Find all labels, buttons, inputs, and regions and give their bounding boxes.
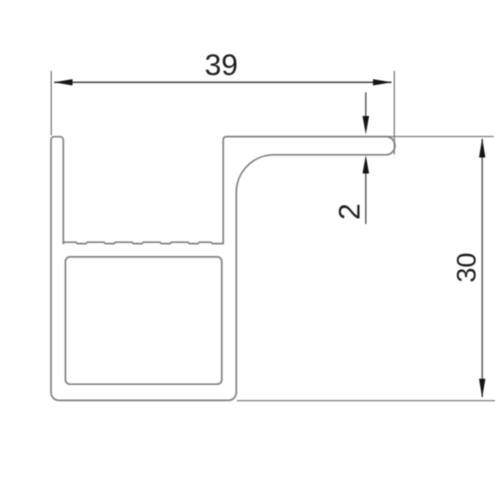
dim 2: lower line with up arrow xyxy=(365,159,367,224)
profile inner cavity xyxy=(65,257,221,384)
dim 30: top arrow xyxy=(479,138,485,157)
dim 30: bottom extension line xyxy=(237,400,495,402)
dim 30: bottom arrow xyxy=(479,379,485,398)
svg-text:30: 30 xyxy=(451,253,481,283)
dim 30: dimension line xyxy=(481,139,483,397)
dim 39: dimension line xyxy=(54,81,392,83)
svg-text:39: 39 xyxy=(205,49,238,82)
dim 39: right arrow xyxy=(373,79,392,85)
dim 30: top extension line xyxy=(386,136,494,138)
dim 39: left arrow xyxy=(54,79,73,85)
dim 39: extension line left xyxy=(50,71,52,136)
svg-text:2: 2 xyxy=(334,203,367,220)
dim 2: upper line with down arrow xyxy=(365,92,367,130)
profile outer outline xyxy=(51,137,395,401)
dim 39: extension line right xyxy=(393,71,395,155)
